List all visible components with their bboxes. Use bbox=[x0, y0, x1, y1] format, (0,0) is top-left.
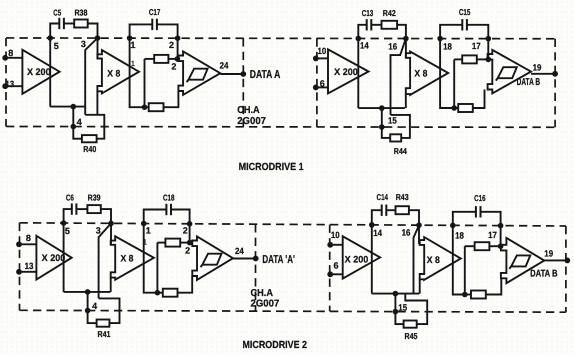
resistor comparator top (microdrive1 ch.B) bbox=[462, 55, 477, 63]
wire node 16 to X8 upper input tab bbox=[418, 225, 420, 244]
op-amp X200 amplifier (microdrive1 ch.A first stage) bbox=[22, 50, 59, 94]
op-amp X8 amplifier (microdrive1 ch.B second stage) bbox=[406, 52, 448, 96]
wire top resistor row bbox=[465, 245, 475, 247]
svg-text:13: 13 bbox=[5, 79, 14, 89]
junction dot comparator input loop bbox=[155, 290, 161, 296]
wire pin 15 drop through boundary bbox=[394, 294, 396, 325]
wire bottom rail of first stage bbox=[358, 107, 405, 109]
input pin 8 wire and terminal dot bbox=[19, 243, 36, 245]
svg-text:X 8: X 8 bbox=[427, 255, 440, 266]
svg-text:DATA B: DATA B bbox=[517, 77, 541, 88]
capacitor C5 bbox=[58, 18, 60, 29]
resistor comparator bottom (microdrive1 ch.B) bbox=[458, 104, 473, 112]
input pin 10 wire and terminal dot bbox=[316, 57, 328, 59]
wire slanted feedback drop from node 16 bbox=[414, 225, 420, 293]
svg-text:R43: R43 bbox=[396, 192, 409, 202]
wire output pin 19 to data terminal bbox=[531, 73, 555, 75]
node output terminal dot (DATA 'A') bbox=[253, 256, 259, 262]
parallelogram symbol inside comparator bbox=[202, 254, 221, 265]
junction dot comparator input loop bbox=[462, 292, 468, 298]
svg-text:5: 5 bbox=[54, 41, 59, 51]
wire node 5 column down to bottom rail bbox=[63, 223, 65, 292]
junction dot comparator input loop bbox=[451, 105, 457, 111]
wire node 17 drop to comparator input bbox=[500, 226, 502, 247]
svg-text:X 8: X 8 bbox=[121, 254, 134, 265]
svg-text:24: 24 bbox=[235, 246, 244, 256]
dashed boundary bottom line row 2 bbox=[20, 310, 566, 312]
dashed boundary right edge block 2B bbox=[565, 226, 567, 312]
svg-text:10: 10 bbox=[331, 230, 340, 240]
node comparator upper input dot bbox=[175, 56, 181, 62]
op-amp X8 amplifier (microdrive1 ch.A second stage) bbox=[97, 50, 139, 93]
input pin 13 wire and terminal dot bbox=[19, 271, 36, 273]
wire bottom resistor row and riser to comparator lower tab bbox=[157, 292, 162, 294]
svg-text:2G007: 2G007 bbox=[237, 116, 266, 127]
svg-text:3: 3 bbox=[81, 39, 86, 49]
resistor R40 bbox=[82, 135, 97, 142]
node 14 junction dot bbox=[369, 222, 375, 228]
dashed boundary right edge block 2A bbox=[255, 224, 257, 311]
svg-text:15: 15 bbox=[398, 303, 407, 313]
wire node 18 column down and across bbox=[453, 225, 465, 294]
capacitor C6 bbox=[71, 203, 73, 214]
wire bottom rail of first stage bbox=[372, 293, 420, 295]
svg-text:C5: C5 bbox=[53, 7, 61, 17]
resistor R42 bbox=[382, 21, 398, 29]
node pin 4 dot on boundary bbox=[71, 124, 77, 130]
svg-text:18: 18 bbox=[455, 231, 464, 241]
svg-text:X 200: X 200 bbox=[42, 253, 66, 264]
svg-text:4: 4 bbox=[92, 301, 97, 311]
parallelogram symbol inside comparator bbox=[498, 67, 517, 78]
resistor R43 bbox=[396, 206, 409, 214]
dashed boundary right edge block 1B bbox=[554, 39, 556, 128]
wire R44 loop bbox=[382, 137, 390, 139]
svg-text:R41: R41 bbox=[98, 329, 111, 339]
svg-text:8: 8 bbox=[8, 48, 13, 58]
wire top resistor row bbox=[145, 58, 155, 60]
svg-text:C18: C18 bbox=[163, 192, 175, 202]
svg-text:24: 24 bbox=[220, 61, 229, 71]
svg-text:DATA A: DATA A bbox=[250, 69, 280, 81]
junction on bottom rail bbox=[393, 291, 399, 297]
resistor R39 bbox=[87, 205, 100, 213]
wire X8 lower input tab drop bbox=[405, 94, 407, 108]
svg-text:2: 2 bbox=[185, 245, 190, 255]
wire comparator left loop bbox=[453, 59, 455, 108]
op-amp X200 amplifier (microdrive2 ch.B first stage) bbox=[343, 236, 380, 278]
capacitor C13 bbox=[366, 19, 368, 30]
node 14 junction dot bbox=[356, 36, 362, 42]
svg-text:MICRODRIVE 2: MICRODRIVE 2 bbox=[243, 340, 308, 351]
wire slanted feedback drop from node 16 bbox=[391, 38, 406, 115]
svg-text:5: 5 bbox=[65, 226, 70, 236]
input pin 6 wire and terminal dot bbox=[330, 273, 343, 275]
resistor comparator top (microdrive2 ch.B) bbox=[475, 242, 490, 250]
wire bottom rail of first stage bbox=[50, 106, 85, 108]
svg-text:16: 16 bbox=[388, 41, 397, 51]
op-amp X200 amplifier (microdrive2 ch.A first stage) bbox=[36, 236, 71, 280]
svg-text:X 8: X 8 bbox=[414, 69, 427, 80]
node pin 15 dot on boundary bbox=[379, 124, 385, 130]
node 1 junction dot bbox=[127, 35, 133, 41]
resistor R38 bbox=[74, 20, 88, 28]
comparator output stage (microdrive2 ch.B) bbox=[501, 238, 544, 283]
svg-text:6: 6 bbox=[333, 261, 338, 271]
svg-text:17: 17 bbox=[472, 41, 481, 51]
wire feedback loop C13/R42 from node 14 to node 16 bbox=[358, 25, 366, 39]
wire comparator left loop bbox=[156, 243, 158, 293]
wire X8 lower input tab drop bbox=[96, 91, 98, 115]
svg-text:C13: C13 bbox=[362, 8, 374, 18]
resistor comparator bottom (microdrive2 ch.A) bbox=[163, 289, 178, 297]
wire capacitor C16 link from node 18 to node 17 bbox=[453, 212, 476, 226]
wire bottom resistor row and riser to comparator lower tab bbox=[145, 106, 149, 108]
node comparator upper input dot bbox=[187, 240, 193, 246]
input pin 10 wire and terminal dot bbox=[330, 244, 343, 246]
wire output pin 19 to data terminal bbox=[544, 259, 567, 261]
node comparator upper input dot bbox=[498, 243, 504, 249]
svg-text:3: 3 bbox=[96, 226, 101, 236]
wire bottom rail of first stage bbox=[64, 291, 111, 293]
wire top resistor row bbox=[454, 58, 462, 60]
svg-text:14: 14 bbox=[360, 41, 369, 51]
resistor comparator top (microdrive1 ch.A) bbox=[154, 55, 168, 63]
wire feedback loop C5/R38 from node 5 to node 3 bbox=[50, 24, 59, 39]
wire node 17 drop to comparator input bbox=[487, 39, 489, 60]
node 1 junction dot bbox=[141, 221, 147, 227]
wire X8 lower input tab drop bbox=[110, 278, 112, 292]
dashed boundary top line row 1 bbox=[6, 37, 555, 40]
svg-text:19: 19 bbox=[533, 62, 542, 72]
op-amp X8 amplifier (microdrive2 ch.B second stage) bbox=[420, 237, 461, 280]
wire node 1 column down and across bbox=[144, 224, 158, 293]
wire slanted feedback drop from node 3 bbox=[85, 38, 97, 115]
svg-text:X 8: X 8 bbox=[107, 69, 120, 80]
wire R40 loop bbox=[73, 138, 82, 140]
dashed boundary bottom line row 1 bbox=[6, 125, 555, 128]
wire R45 loop bbox=[395, 323, 403, 325]
svg-text:CH.A: CH.A bbox=[251, 288, 274, 299]
junction dot comparator input loop bbox=[142, 104, 148, 110]
svg-text:R44: R44 bbox=[394, 146, 407, 156]
svg-text:R45: R45 bbox=[405, 331, 418, 341]
svg-text:19: 19 bbox=[544, 249, 553, 259]
junction on bottom rail bbox=[85, 289, 91, 295]
wire R41 loop bbox=[88, 322, 97, 324]
wire pin 4 drop through boundary bbox=[72, 107, 74, 140]
svg-text:13: 13 bbox=[25, 261, 34, 271]
wire pin 4 drop through boundary bbox=[87, 292, 89, 324]
svg-text:10: 10 bbox=[318, 46, 327, 56]
svg-text:X 200: X 200 bbox=[345, 254, 369, 265]
node 5 junction dot bbox=[61, 220, 67, 226]
node 18 junction dot bbox=[437, 36, 443, 42]
node 5 junction dot bbox=[47, 35, 53, 41]
wire top resistor row bbox=[157, 242, 165, 244]
resistor R45 bbox=[404, 321, 417, 328]
wire capacitor C15 link from node 18 to node 17 bbox=[440, 25, 462, 39]
dashed boundary top line row 2 bbox=[20, 223, 566, 226]
resistor comparator bottom (microdrive2 ch.B) bbox=[471, 291, 486, 299]
node 2 junction dot bbox=[175, 35, 181, 41]
node output terminal dot (DATA A) bbox=[240, 71, 246, 77]
comparator output stage (microdrive1 ch.A) bbox=[178, 51, 220, 95]
svg-text:C16: C16 bbox=[474, 193, 486, 203]
input pin 6 wire and terminal dot bbox=[316, 86, 328, 88]
resistor R44 bbox=[390, 134, 401, 141]
wire capacitor C17 link from node 1 to node 2 bbox=[130, 24, 153, 38]
svg-text:14: 14 bbox=[373, 228, 382, 238]
capacitor C14 bbox=[381, 205, 383, 216]
node output terminal dot (DATA B) bbox=[552, 71, 558, 77]
wire feedback loop C6/R39 from node 5 to node 3 bbox=[64, 209, 72, 223]
node 16 junction dot bbox=[403, 36, 409, 42]
svg-text:R42: R42 bbox=[383, 8, 396, 18]
node 3 junction dot bbox=[95, 35, 101, 41]
svg-text:X 200: X 200 bbox=[334, 67, 358, 78]
capacitor C17 bbox=[151, 19, 153, 30]
resistor comparator bottom (microdrive1 ch.A) bbox=[149, 103, 164, 111]
input pin 8 wire and terminal dot bbox=[5, 57, 22, 59]
wire comparator left loop bbox=[144, 59, 146, 107]
wire node 14 column down to bottom rail bbox=[371, 225, 373, 294]
svg-text:1: 1 bbox=[146, 226, 151, 236]
capacitor C18 bbox=[165, 204, 167, 215]
wire node 14 column down to bottom rail bbox=[357, 38, 359, 108]
capacitor C15 bbox=[461, 19, 463, 30]
wire node 5 column down to bottom rail bbox=[49, 38, 51, 107]
svg-text:R40: R40 bbox=[83, 144, 96, 154]
wire node 3 to X8 upper input tab bbox=[97, 38, 99, 57]
wire node 3 to X8 upper input tab bbox=[110, 223, 112, 243]
node 16 junction dot bbox=[416, 222, 422, 228]
node 3 junction dot bbox=[108, 221, 114, 227]
node comparator upper input dot bbox=[486, 57, 492, 63]
svg-text:1: 1 bbox=[131, 59, 135, 68]
svg-text:2G007: 2G007 bbox=[251, 299, 280, 310]
svg-text:DATA B: DATA B bbox=[530, 269, 558, 280]
junction on bottom rail bbox=[379, 105, 385, 111]
svg-text:4: 4 bbox=[77, 117, 82, 127]
svg-text:6: 6 bbox=[320, 79, 325, 89]
svg-text:R38: R38 bbox=[74, 7, 87, 17]
svg-text:DATA 'A': DATA 'A' bbox=[262, 254, 295, 266]
op-amp X200 amplifier (microdrive1 ch.B first stage) bbox=[328, 49, 369, 93]
wire bottom resistor row and riser to comparator lower tab bbox=[454, 107, 458, 109]
wire slanted feedback drop from node 3 bbox=[99, 223, 111, 298]
capacitor C16 bbox=[475, 206, 477, 217]
svg-text:17: 17 bbox=[488, 230, 497, 240]
node 2 junction dot bbox=[187, 221, 193, 227]
svg-text:R39: R39 bbox=[88, 192, 101, 202]
wire node 16 to X8 upper input tab bbox=[405, 39, 407, 57]
wire pin 15 drop through boundary bbox=[381, 108, 383, 139]
junction on bottom rail bbox=[71, 104, 77, 110]
resistor comparator top (microdrive2 ch.A) bbox=[165, 239, 180, 247]
svg-text:16: 16 bbox=[402, 227, 411, 237]
wire output pin 24 to data terminal bbox=[233, 258, 256, 260]
svg-text:C15: C15 bbox=[459, 7, 471, 17]
parallelogram symbol inside comparator bbox=[511, 255, 530, 266]
node output terminal dot (DATA B) bbox=[564, 258, 570, 264]
svg-text:8: 8 bbox=[26, 233, 31, 243]
wire node 2 drop to comparator input bbox=[177, 38, 179, 59]
node pin 15 dot on boundary bbox=[393, 309, 399, 315]
comparator output stage (microdrive1 ch.B) bbox=[488, 50, 531, 94]
resistor R41 bbox=[97, 320, 110, 327]
svg-text:2: 2 bbox=[183, 226, 188, 236]
svg-text:18: 18 bbox=[443, 41, 452, 51]
dashed boundary left edge block 2B bbox=[329, 225, 331, 312]
svg-text:1: 1 bbox=[130, 40, 135, 50]
svg-text:15: 15 bbox=[388, 116, 397, 126]
wire node 1 column down and across bbox=[130, 38, 145, 107]
wire capacitor C18 link from node 1 to node 2 bbox=[144, 210, 167, 224]
svg-text:C17: C17 bbox=[149, 7, 161, 17]
wire X8 lower input tab drop bbox=[419, 279, 421, 293]
dashed boundary left edge block 1A bbox=[5, 38, 7, 127]
wire node 18 column down and across bbox=[440, 39, 454, 108]
comparator output stage (microdrive2 ch.A) bbox=[192, 236, 233, 280]
svg-text:X 200: X 200 bbox=[27, 67, 51, 78]
svg-text:MICRODRIVE 1: MICRODRIVE 1 bbox=[239, 162, 304, 173]
parallelogram symbol inside comparator bbox=[189, 69, 208, 80]
wire node 2 drop to comparator input bbox=[189, 224, 191, 243]
svg-text:2: 2 bbox=[169, 40, 174, 50]
wire output pin 24 to data terminal bbox=[220, 73, 243, 75]
svg-text:CH.A: CH.A bbox=[237, 105, 260, 116]
input pin 13 wire and terminal dot bbox=[5, 85, 22, 87]
dashed boundary left edge block 2A bbox=[19, 223, 21, 310]
svg-text:C14: C14 bbox=[377, 192, 389, 202]
node 18 junction dot bbox=[450, 223, 456, 229]
dashed boundary left edge block 1B bbox=[316, 38, 318, 127]
op-amp X8 amplifier (microdrive2 ch.A second stage) bbox=[111, 236, 154, 279]
wire feedback loop C14/R43 from node 14 to node 16 bbox=[372, 210, 382, 225]
node 17 junction dot bbox=[498, 223, 504, 229]
node pin 4 dot on boundary bbox=[85, 308, 91, 314]
wire comparator left loop bbox=[464, 246, 466, 294]
svg-text:C6: C6 bbox=[66, 192, 74, 202]
dashed boundary right edge block 1A bbox=[242, 38, 244, 127]
node 17 junction dot bbox=[486, 36, 492, 42]
svg-text:2: 2 bbox=[171, 62, 176, 72]
wire bottom resistor row and riser to comparator lower tab bbox=[465, 294, 471, 296]
